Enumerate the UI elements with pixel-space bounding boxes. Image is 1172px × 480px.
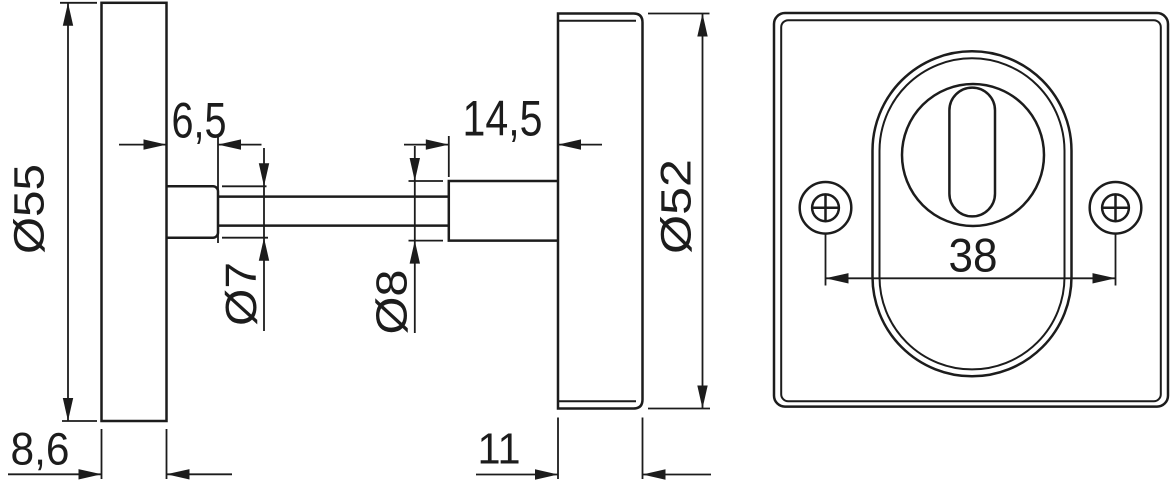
dim Ø55 extension bottom — [62, 420, 97, 422]
arrowhead 11 right — [535, 469, 558, 479]
svg-text:Ø8: Ø8 — [368, 270, 417, 335]
dim Ø8 extension bottom — [409, 240, 444, 242]
arrowhead 38 right — [1093, 273, 1116, 283]
svg-text:Ø55: Ø55 — [6, 164, 54, 254]
dim 6,5 extension right — [217, 136, 219, 243]
screw left cross — [812, 194, 839, 221]
dim 8,6 line right — [167, 473, 233, 475]
arrowhead 38 left — [826, 273, 849, 283]
boss Ø8 outline — [449, 181, 558, 241]
svg-text:Ø7: Ø7 — [217, 262, 266, 326]
plate front view inner edge — [781, 20, 1161, 401]
arrowhead Ø7 down — [259, 163, 269, 186]
plate front view outer edge — [774, 13, 1168, 407]
dim 14,5 line right — [558, 144, 602, 146]
neck Ø7 boss on rosette — [167, 186, 219, 237]
dim Ø55 line — [67, 3, 69, 421]
arrowhead Ø7 up — [259, 238, 269, 261]
rosette Ø55 side view body — [102, 3, 167, 421]
dim Ø7 extension top — [222, 185, 267, 187]
arrowhead 11 left — [643, 469, 666, 479]
spindle top edge — [219, 195, 449, 198]
dim Ø7 extension bottom — [222, 237, 268, 239]
svg-text:11: 11 — [478, 425, 521, 474]
rosette Ø52 inner top edge — [559, 20, 636, 22]
svg-text:Ø52: Ø52 — [653, 159, 701, 254]
screw left inner circle — [812, 194, 839, 221]
dim 11 line left — [476, 474, 558, 476]
dim Ø8 line — [414, 146, 416, 333]
screw right cross — [1102, 194, 1129, 221]
dim 6,5 line left — [119, 144, 167, 146]
arrowhead Ø52 up — [697, 14, 707, 37]
oval cylinder cover inner edge — [880, 58, 1065, 369]
key slot — [949, 88, 995, 217]
spindle bottom edge — [219, 224, 449, 227]
svg-text:6,5: 6,5 — [172, 92, 227, 148]
arrowhead Ø55 down — [63, 398, 73, 421]
dim 6,5 line right — [218, 144, 262, 146]
arrowhead Ø8 down — [410, 158, 420, 181]
screw right outer circle — [1090, 182, 1142, 234]
dim 38 extension right — [1115, 234, 1117, 286]
rosette Ø52 side view body — [558, 14, 643, 409]
dim 14,5 extension left — [448, 136, 450, 177]
dim Ø52 extension top — [648, 13, 710, 15]
dim Ø52 extension bottom — [648, 408, 710, 410]
dim 14,5 line left — [404, 144, 449, 146]
arrowhead 6,5 right — [144, 139, 167, 149]
arrowhead 8,6 left — [167, 469, 190, 479]
dim Ø52 line — [702, 14, 704, 409]
arrowhead 6,5 left — [218, 139, 241, 149]
dim 8,6 line left — [8, 473, 102, 475]
dim Ø7 line — [263, 148, 265, 331]
dim 11 extension left — [557, 418, 559, 480]
arrowhead 14,5 left — [558, 139, 581, 149]
arrowhead Ø8 up — [410, 241, 420, 264]
arrowhead 8,6 right — [79, 469, 102, 479]
svg-text:8,6: 8,6 — [11, 424, 70, 475]
dim Ø55 extension top — [60, 2, 97, 4]
dim 8,6 extension right — [166, 429, 168, 479]
svg-text:14,5: 14,5 — [463, 91, 543, 147]
dim 11 line right — [643, 474, 712, 476]
cylinder hole circle — [902, 84, 1044, 226]
dim 38 line — [826, 277, 1116, 279]
rosette Ø52 inner bottom edge — [559, 400, 636, 402]
dim 11 extension right — [642, 418, 644, 480]
arrowhead Ø52 down — [697, 386, 707, 409]
screw left outer circle — [800, 182, 852, 234]
arrowhead Ø55 up — [63, 3, 73, 26]
svg-text:38: 38 — [949, 229, 998, 282]
dim Ø8 extension top — [409, 180, 444, 182]
dim 8,6 extension left — [101, 429, 103, 479]
dim 38 extension left — [825, 234, 827, 286]
screw right inner circle — [1102, 194, 1129, 221]
arrowhead 14,5 right — [426, 139, 449, 149]
oval cylinder cover outer edge — [873, 51, 1072, 376]
